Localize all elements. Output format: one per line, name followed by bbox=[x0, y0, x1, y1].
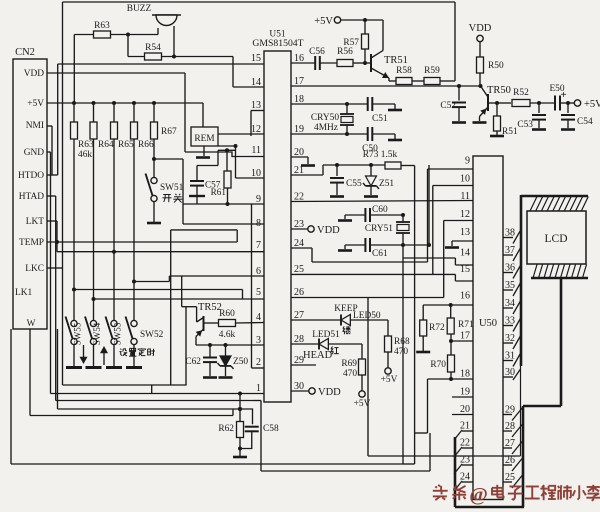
svg-text:GND: GND bbox=[24, 148, 45, 158]
svg-text:+5V: +5V bbox=[381, 375, 398, 385]
svg-text:Z51: Z51 bbox=[379, 179, 394, 189]
svg-text:C53: C53 bbox=[517, 120, 533, 130]
svg-text:4MHz: 4MHz bbox=[314, 123, 338, 133]
svg-text:12: 12 bbox=[460, 209, 470, 220]
svg-text:GMS81504T: GMS81504T bbox=[252, 38, 303, 49]
svg-text:VDD: VDD bbox=[469, 23, 492, 34]
svg-text:R59: R59 bbox=[424, 66, 440, 76]
svg-text:18: 18 bbox=[460, 369, 470, 380]
svg-text:NMI: NMI bbox=[26, 121, 44, 131]
svg-text:13: 13 bbox=[251, 100, 261, 111]
svg-text:R58: R58 bbox=[396, 66, 412, 76]
svg-text:VDD: VDD bbox=[317, 225, 340, 236]
svg-text:26: 26 bbox=[294, 287, 304, 298]
svg-text:R64: R64 bbox=[98, 140, 114, 150]
svg-text:LED51: LED51 bbox=[312, 330, 340, 340]
svg-text:15: 15 bbox=[251, 53, 261, 64]
svg-text:R50: R50 bbox=[488, 61, 504, 71]
svg-text:2: 2 bbox=[256, 357, 261, 368]
svg-text:VDD: VDD bbox=[24, 69, 45, 79]
svg-text:R61: R61 bbox=[211, 187, 227, 197]
svg-text:13: 13 bbox=[460, 227, 470, 238]
svg-text:SW52: SW52 bbox=[140, 330, 164, 340]
svg-text:4.6k: 4.6k bbox=[219, 330, 236, 340]
svg-text:R71: R71 bbox=[458, 320, 474, 330]
svg-text:C62: C62 bbox=[185, 357, 201, 367]
svg-text:U50: U50 bbox=[479, 318, 497, 329]
svg-text:W: W bbox=[27, 319, 36, 329]
svg-text:HEAD: HEAD bbox=[303, 350, 333, 361]
svg-text:LKT: LKT bbox=[26, 217, 44, 227]
svg-text:+5V: +5V bbox=[314, 16, 333, 27]
svg-text:LCD: LCD bbox=[545, 233, 568, 245]
svg-text:LK1: LK1 bbox=[15, 288, 32, 298]
svg-text:R66: R66 bbox=[138, 140, 154, 150]
svg-text:470: 470 bbox=[343, 369, 357, 379]
svg-text:+5V: +5V bbox=[584, 99, 600, 110]
svg-text:+: + bbox=[560, 89, 566, 101]
svg-text:C61: C61 bbox=[372, 249, 388, 259]
svg-text:R69: R69 bbox=[341, 359, 357, 369]
svg-text:SW55: SW55 bbox=[73, 322, 83, 345]
svg-text:C58: C58 bbox=[263, 424, 279, 434]
svg-text:46k: 46k bbox=[78, 150, 92, 160]
svg-text:5: 5 bbox=[256, 287, 261, 298]
svg-text:C60: C60 bbox=[372, 205, 388, 215]
svg-text:TR51: TR51 bbox=[384, 55, 408, 66]
svg-text:TR50: TR50 bbox=[487, 85, 511, 96]
svg-text:1: 1 bbox=[256, 383, 261, 394]
svg-text:19: 19 bbox=[460, 387, 470, 398]
svg-text:C55: C55 bbox=[346, 179, 362, 189]
svg-text:R70: R70 bbox=[430, 360, 446, 370]
svg-text:SW51: SW51 bbox=[160, 183, 184, 193]
svg-text:R72: R72 bbox=[429, 323, 445, 333]
svg-text:Z50: Z50 bbox=[233, 357, 248, 367]
svg-text:HTDO: HTDO bbox=[18, 171, 44, 181]
svg-text:TEMP: TEMP bbox=[19, 238, 44, 248]
svg-text:CRY51: CRY51 bbox=[365, 224, 393, 234]
svg-text:16: 16 bbox=[460, 291, 470, 302]
svg-text:R62: R62 bbox=[218, 424, 234, 434]
svg-text:25: 25 bbox=[294, 264, 304, 275]
svg-text:R65: R65 bbox=[118, 140, 134, 150]
svg-text:4: 4 bbox=[256, 312, 261, 323]
svg-text:REM: REM bbox=[194, 134, 215, 144]
svg-text:R68: R68 bbox=[394, 337, 410, 347]
svg-text:@: @ bbox=[469, 484, 488, 506]
svg-text:+5V: +5V bbox=[27, 99, 44, 109]
svg-text:LKC: LKC bbox=[25, 264, 44, 274]
svg-text:9: 9 bbox=[465, 156, 470, 167]
svg-text:SW53: SW53 bbox=[113, 322, 123, 345]
svg-text:SW54: SW54 bbox=[92, 322, 102, 345]
svg-text:C51: C51 bbox=[372, 114, 388, 124]
svg-text:C54: C54 bbox=[577, 117, 593, 127]
svg-text:17: 17 bbox=[460, 331, 470, 342]
svg-text:HTAD: HTAD bbox=[19, 192, 45, 202]
svg-text:470: 470 bbox=[394, 347, 408, 357]
svg-text:CN2: CN2 bbox=[15, 47, 35, 58]
svg-text:11: 11 bbox=[251, 145, 261, 156]
svg-text:C52: C52 bbox=[440, 101, 456, 111]
svg-text:R63: R63 bbox=[78, 140, 94, 150]
svg-text:R67: R67 bbox=[161, 127, 177, 137]
svg-text:C56: C56 bbox=[309, 47, 325, 57]
svg-text:R73 1.5k: R73 1.5k bbox=[363, 150, 398, 160]
svg-text:R51: R51 bbox=[502, 127, 518, 137]
svg-text:VDD: VDD bbox=[318, 387, 341, 398]
svg-text:7: 7 bbox=[256, 240, 261, 251]
svg-text:R52: R52 bbox=[513, 88, 529, 98]
svg-text:CRY50: CRY50 bbox=[311, 113, 339, 123]
svg-text:R56: R56 bbox=[337, 47, 353, 57]
svg-text:20: 20 bbox=[460, 404, 470, 415]
svg-text:R60: R60 bbox=[219, 309, 235, 319]
svg-text:R54: R54 bbox=[145, 43, 161, 53]
svg-text:10: 10 bbox=[460, 174, 470, 185]
svg-text:14: 14 bbox=[460, 248, 470, 259]
svg-text:R63: R63 bbox=[94, 21, 110, 31]
svg-text:BUZZ: BUZZ bbox=[127, 4, 152, 14]
